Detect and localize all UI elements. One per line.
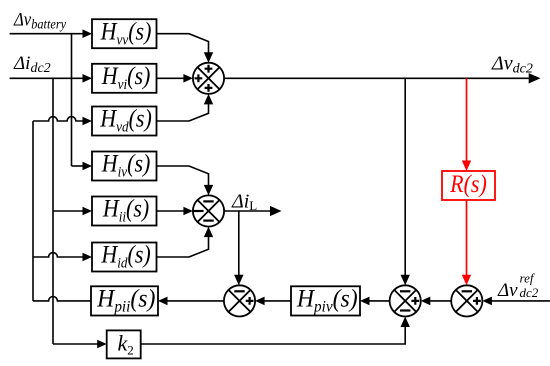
- wire S5 output to S4: [430, 300, 451, 302]
- wire S3 output to Hpii: [167, 300, 224, 302]
- wire di_L branch to S3: [238, 211, 240, 277]
- svg-text:Δidc2: Δidc2: [13, 53, 51, 76]
- block Hpiv: [291, 286, 360, 315]
- svg-text:Hvv(s): Hvv(s): [100, 18, 152, 48]
- block Hii: [92, 197, 157, 226]
- block Hpii: [91, 286, 158, 315]
- wire Hid input with hop: [33, 253, 84, 257]
- block Hvi: [92, 64, 157, 93]
- wire k2 input: [53, 343, 98, 345]
- summing junction S1: [193, 63, 224, 94]
- sign minus: [400, 309, 410, 311]
- wire Hpiv output to S3: [264, 300, 291, 302]
- summing junction S4: [390, 285, 421, 316]
- svg-text:Hpiv(s): Hpiv(s): [296, 285, 358, 316]
- wire Hvv to S1: [157, 34, 209, 53]
- sign plus: [205, 84, 213, 92]
- wire duty branch vertical: [32, 121, 34, 301]
- wire red branch to R(s): [466, 78, 468, 162]
- wire Hii to S2: [157, 210, 185, 212]
- sign plus: [411, 297, 419, 305]
- svg-text:Δvdc2: Δvdc2: [491, 53, 533, 77]
- wire Hvd to S1: [157, 104, 209, 121]
- sign plus: [195, 74, 203, 82]
- wire Hid to S2: [157, 236, 209, 257]
- block Hid: [92, 243, 157, 272]
- wire Hvi to S1: [157, 77, 185, 79]
- wire S4 output to Hpiv: [369, 300, 390, 302]
- svg-text:Hvi(s): Hvi(s): [101, 63, 151, 93]
- svg-text:ref: ref: [520, 270, 536, 285]
- wire Hiv input: [72, 165, 84, 167]
- svg-text:Hii(s): Hii(s): [102, 195, 149, 225]
- wire red R(s) to S5: [466, 200, 468, 277]
- sign minus: [203, 220, 213, 222]
- svg-text:Δvbattery: Δvbattery: [13, 9, 66, 32]
- wire S1 output main: [224, 77, 530, 79]
- sign plus: [205, 65, 213, 73]
- wire Hvd input with hops: [33, 117, 84, 121]
- block R(s) red: [442, 171, 495, 200]
- svg-text:Hvd(s): Hvd(s): [99, 105, 152, 135]
- summing junction S5: [451, 285, 482, 316]
- summing junction S2: [193, 195, 224, 226]
- wire idc2 branch vertical: [52, 78, 54, 344]
- summing junction S3: [224, 285, 255, 316]
- svg-text:Δv: Δv: [497, 280, 518, 301]
- svg-text:Hid(s): Hid(s): [100, 241, 150, 271]
- wire Hiv to S2: [157, 166, 209, 186]
- block Hiv: [92, 152, 157, 181]
- wire k2 output to S4: [141, 326, 406, 345]
- sign minus: [203, 200, 213, 202]
- wire main branch down to S4: [404, 78, 406, 276]
- svg-text:dc2: dc2: [520, 285, 539, 300]
- svg-text:Hpii(s): Hpii(s): [96, 285, 155, 316]
- svg-text:Hiv(s): Hiv(s): [101, 150, 151, 180]
- wire Hpii output with hop: [33, 297, 91, 301]
- block Hvv: [92, 19, 157, 48]
- wire battery branch vertical: [71, 34, 73, 166]
- svg-text:ΔiL: ΔiL: [231, 191, 257, 214]
- wire dv_battery input: [10, 33, 84, 35]
- sign minus: [234, 290, 244, 292]
- wire S2 output di_L: [224, 210, 270, 212]
- wire Hii input: [53, 210, 84, 212]
- sign plus: [246, 297, 254, 305]
- sign minus: [193, 210, 203, 212]
- wire di_dc2 input: [10, 77, 84, 79]
- sign minus: [400, 290, 410, 292]
- block Hvd: [92, 107, 157, 136]
- sign minus: [462, 290, 472, 292]
- wire ref input to S5: [492, 300, 550, 302]
- sign plus: [473, 297, 481, 305]
- block k2: [107, 330, 141, 358]
- svg-text:R(s): R(s): [449, 171, 487, 199]
- svg-text:k2: k2: [118, 330, 134, 357]
